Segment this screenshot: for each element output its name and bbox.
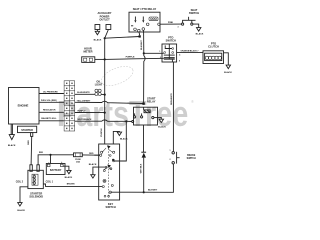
svg-text:BROWN: BROWN	[67, 184, 75, 186]
start relay K2 box	[134, 107, 158, 125]
ground aux outlet	[95, 31, 99, 35]
wire hour meter to node	[95, 55, 105, 64]
wire pto switch to brake switch	[169, 62, 178, 152]
wire battery to ground	[63, 166, 69, 170]
svg-text:RED/WHITE: RED/WHITE	[171, 93, 173, 105]
connector J1 grid	[64, 81, 75, 131]
svg-text:BLK/WHT: BLK/WHT	[148, 189, 158, 191]
seat switch SW1	[182, 17, 196, 25]
svg-text:RED: RED	[89, 153, 94, 155]
watermark leaf ellipse	[99, 62, 136, 89]
node white/black junction	[125, 120, 127, 122]
starter bolt	[31, 133, 33, 137]
engine box	[9, 88, 40, 125]
wire node to pto switch pin 1	[144, 49, 164, 58]
wire aux left pin to ground	[93, 30, 102, 32]
node bottom junction	[143, 191, 145, 193]
wire purple horizontal to pto switch	[105, 58, 164, 59]
node blk/wht to pto	[143, 52, 145, 54]
wire oil light to node	[101, 90, 105, 99]
svg-text:FUEL SOL.(RED): FUEL SOL.(RED)	[41, 100, 57, 102]
wire blue/white to oil light	[75, 90, 95, 99]
wire yellow/white with hop	[75, 101, 144, 103]
wire white/black with hop	[75, 120, 127, 121]
relay coil	[149, 17, 158, 21]
wire magneto kill	[39, 116, 64, 125]
ground battery	[67, 170, 71, 173]
svg-text:3: 3	[178, 27, 179, 29]
wire coil1 brown to key switch	[43, 184, 102, 186]
relay K1 seat/pto box	[129, 12, 160, 32]
wire aux right pin down to node	[105, 30, 109, 39]
ground seat switch	[197, 28, 201, 32]
wire seat switch to ground	[193, 24, 199, 28]
diode D1	[141, 152, 146, 157]
wire white/black to start relay pin	[126, 117, 132, 126]
wire key switch B terminal red	[94, 151, 99, 160]
svg-text:YELLOW/WHT: YELLOW/WHT	[77, 100, 91, 102]
node oil light junction	[104, 94, 106, 96]
svg-text:COIL 2: COIL 2	[16, 181, 24, 183]
node hour meter junction	[104, 58, 106, 60]
wire blk/wht vertical hop over purple	[144, 53, 146, 102]
pto clutch L1 box	[203, 51, 224, 64]
node purple junction	[104, 112, 106, 114]
battery BT1 box	[46, 164, 65, 175]
wire battery drop	[46, 155, 55, 164]
node aux/black junction	[104, 37, 106, 39]
solenoid coil	[32, 174, 38, 185]
wire key switch ground left	[93, 167, 105, 175]
svg-text:®: ®	[191, 99, 194, 104]
wire white/black drop to key switch	[115, 121, 126, 161]
wire red starter to solenoid	[27, 136, 37, 164]
key switch contact details	[102, 148, 112, 197]
key switch ground top wire	[113, 131, 119, 144]
ground start relay	[159, 119, 163, 122]
svg-text:FUSE: FUSE	[75, 159, 81, 161]
ground pto clutch	[226, 65, 230, 69]
hour meter M1	[82, 57, 95, 63]
svg-text:COIL 1: COIL 1	[46, 181, 54, 183]
start relay contacts	[134, 113, 158, 118]
wire relay pin to square node	[134, 32, 144, 35]
key switch internals	[100, 145, 115, 198]
svg-text:STARTER: STARTER	[21, 129, 33, 132]
relay contact arm 1	[134, 17, 137, 31]
fuse F1	[74, 153, 83, 157]
svg-text:1: 1	[159, 51, 160, 53]
svg-text:BLUE/WHITE: BLUE/WHITE	[77, 92, 90, 94]
svg-text:ENGINE: ENGINE	[18, 104, 29, 108]
svg-text:8: 8	[179, 61, 180, 63]
wire regulator	[39, 108, 64, 117]
oil light DS1 connector	[95, 89, 101, 95]
wire pto switch to clutch orange/black	[177, 48, 203, 57]
node start relay trigger	[142, 102, 144, 104]
wire coil2 to ground	[20, 187, 28, 203]
svg-text:BLK/WHT: BLK/WHT	[141, 39, 143, 49]
wire red fuse to key switch	[82, 150, 99, 159]
svg-text:RED: RED	[39, 152, 44, 154]
auxiliary power outlet connector pins	[95, 25, 111, 30]
wire blk/wht relay pin down	[139, 30, 149, 53]
watermark PartsTree	[57, 93, 194, 134]
wire brake switch to key switch	[111, 164, 173, 192]
svg-text:PINK: PINK	[168, 22, 174, 24]
node square junction under relay	[139, 35, 141, 37]
relay contact arm 2	[142, 17, 145, 31]
pto switch S2 box	[162, 44, 177, 62]
pto clutch coil loops	[205, 56, 221, 59]
svg-text:1: 1	[170, 150, 171, 152]
wire pink relay to seat switch	[160, 20, 181, 29]
svg-text:OIL PRESSURE: OIL PRESSURE	[43, 91, 59, 93]
ground key switch left	[91, 175, 95, 178]
svg-text:PartsTree: PartsTree	[57, 93, 188, 134]
wire oil pressure	[39, 89, 64, 98]
brake switch S3	[172, 152, 180, 164]
ground starter solenoid	[18, 203, 22, 206]
connector grid pin dots	[66, 83, 73, 130]
wire fuel solenoid	[39, 98, 64, 107]
svg-text:RED: RED	[28, 140, 30, 145]
wire solenoid post to red line	[38, 155, 73, 165]
relay pin circles	[138, 29, 141, 32]
key switch S1 box	[99, 144, 120, 200]
svg-text:PURPLE: PURPLE	[101, 128, 103, 137]
ground engine strap	[9, 124, 14, 140]
starter solenoid K3 box	[28, 170, 43, 188]
svg-text:PURPLE: PURPLE	[77, 111, 86, 113]
wire diode to bottom node	[139, 158, 148, 193]
svg-text:2: 2	[170, 159, 171, 161]
svg-text:PURPLE: PURPLE	[126, 57, 135, 59]
svg-text:2: 2	[160, 57, 161, 59]
wire purple from connector	[75, 108, 105, 117]
svg-text:BATTERY: BATTERY	[50, 169, 62, 172]
wire main vertical purple feed	[100, 38, 109, 144]
wire start relay to ground	[158, 117, 162, 119]
start relay coil	[144, 107, 151, 113]
solenoid posts	[30, 165, 32, 172]
starter box	[18, 126, 37, 132]
svg-text:WHT/BLK: WHT/BLK	[141, 163, 143, 173]
svg-text:SWITCH: SWITCH	[187, 158, 196, 160]
node battery junction	[49, 154, 51, 156]
wire start relay down to diode	[139, 125, 148, 152]
wire black aux node to relay	[105, 37, 140, 39]
ground key switch top	[117, 132, 121, 135]
wire pto clutch to ground	[224, 53, 229, 65]
